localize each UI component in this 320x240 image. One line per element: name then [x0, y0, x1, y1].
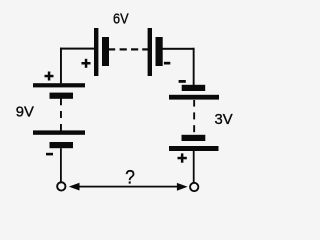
label + of B3 — [178, 153, 187, 162]
battery B2 9V cell1 short plate (-) — [50, 93, 74, 99]
battery B3 3V cell2 short plate (-) — [182, 135, 206, 141]
battery B1 6V inter-cell dashed link — [108, 48, 148, 50]
battery B3 3V cell1 long plate (+) — [169, 95, 219, 100]
label + of B1 — [82, 59, 91, 68]
battery B2 9V cell2 long plate (+) — [33, 130, 85, 134]
battery B1 6V cell1 short plate (-) — [102, 37, 109, 66]
battery B3 3V cell2 long plate (+) — [169, 146, 219, 151]
battery B2 9V cell2 short plate (-) — [50, 142, 74, 148]
battery B2 9V cell1 long plate (+) — [33, 83, 85, 87]
wire from B2 top to B1 left — [60, 48, 94, 84]
wire from B3 bottom to terminal T2 — [193, 151, 195, 183]
label - of B1 — [164, 62, 170, 65]
label - of B2 — [46, 153, 53, 156]
terminal T1 (open circle) — [57, 182, 65, 190]
svg-text:?: ? — [125, 166, 135, 188]
wire from B1 right to B3 top — [163, 48, 195, 86]
battery B1 6V cell2 long plate (+) — [148, 28, 152, 76]
terminal T2 (open circle) — [190, 183, 198, 191]
battery B1 6V cell2 short plate (-) — [156, 37, 163, 66]
wire from B2 bottom to terminal T1 — [60, 148, 62, 182]
svg-text:9V: 9V — [16, 104, 34, 120]
battery B3 3V cell1 short plate (-) — [182, 85, 206, 91]
battery B3 3V inter-cell dashed link — [193, 100, 195, 132]
battery B2 9V inter-cell dashed link — [60, 98, 62, 131]
battery B1 6V cell1 long plate (+) — [94, 28, 98, 76]
label + of B2 — [45, 72, 54, 81]
svg-text:3V: 3V — [215, 112, 233, 128]
measurement double arrow between T1 and T2 — [69, 183, 188, 191]
svg-text:6V: 6V — [113, 12, 129, 28]
label - of B3 — [179, 80, 186, 83]
